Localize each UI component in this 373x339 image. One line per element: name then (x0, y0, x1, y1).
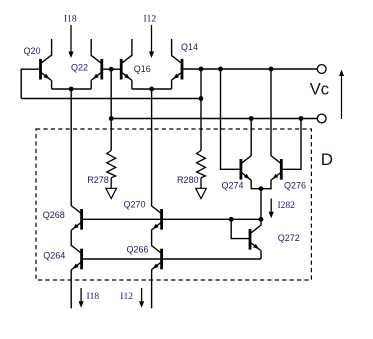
svg-text:Q274: Q274 (222, 180, 244, 190)
wire Q272 collector up to node (260, 219, 262, 226)
label I282 (278, 201, 296, 211)
svg-text:Q14: Q14 (181, 42, 198, 52)
wire base rail y259 (Q264,Q266 bases to Q272 emitter) (82, 258, 261, 260)
svg-text:Q16: Q16 (134, 64, 151, 74)
label R280 (177, 175, 199, 185)
terminal circle Vc top (317, 65, 326, 74)
wire common emitters down to rail (260, 189, 262, 220)
wire common-base vertical x111 (110, 69, 112, 118)
transistor Q276 (271, 156, 282, 181)
current arrow I282 (269, 199, 274, 219)
transistor Q272 (250, 226, 261, 251)
junction dot rail B x251 (249, 116, 254, 121)
current source label I18 (top) (64, 14, 77, 24)
svg-text:Q20: Q20 (24, 46, 41, 56)
label Q268 (43, 210, 65, 220)
resistor R280 (196, 151, 207, 199)
wire Q14 collector stub (171, 39, 173, 56)
svg-text:Q272: Q272 (278, 233, 300, 243)
current source label I12 (top) (144, 14, 157, 24)
label Q270 (124, 199, 146, 209)
junction dot right emitter rail (149, 87, 154, 92)
transistor Q14 (172, 55, 183, 80)
transistor Q274 (241, 156, 252, 181)
wire Q16 base to common node (111, 68, 121, 70)
svg-text:I282: I282 (278, 201, 296, 211)
label R278 (87, 175, 109, 185)
node Q20/Q22 emitter rail (52, 88, 92, 90)
dashed boundary box D (36, 129, 311, 280)
current arrow I12 (bottom) (139, 288, 144, 308)
label I12 (bottom) (120, 292, 133, 302)
junction dot Q274/Q276 emitters (259, 186, 264, 191)
svg-text:Q264: Q264 (43, 251, 65, 261)
junction dot rail A x220 (218, 67, 223, 72)
label Q276 (284, 180, 306, 190)
label I18 (bottom) (87, 292, 100, 302)
svg-text:Q266: Q266 (127, 244, 149, 254)
transistor Q16 (121, 55, 132, 80)
wire Q22 collector stub (90, 39, 92, 56)
label Q14 (181, 42, 198, 52)
svg-text:I18: I18 (87, 292, 100, 302)
wire Q272 emitter down to rail (260, 250, 262, 259)
svg-text:Q276: Q276 (284, 180, 306, 190)
svg-text:D: D (321, 150, 333, 169)
svg-text:I18: I18 (64, 14, 77, 24)
wire vertical x271 (rail A down to Q276 collector) (270, 69, 272, 156)
label D (321, 150, 333, 169)
junction dot left emitter rail (69, 87, 74, 92)
node Q16/Q14 emitter rail (132, 88, 172, 90)
label Q272 (278, 233, 300, 243)
wire Q270 emitter down to Q266 (151, 230, 153, 246)
wire Q20 emitter down (51, 80, 53, 89)
wire Q16 collector stub (131, 39, 133, 56)
svg-text:R278: R278 (87, 175, 109, 185)
wire Q14 emitter down (171, 80, 173, 89)
junction dot rail A x271 (269, 67, 274, 72)
label Q22 (71, 63, 88, 73)
wire vertical x151 (emitters down to Q270) (151, 89, 153, 206)
terminal circle Vc bottom (317, 114, 326, 123)
wire Q22 emitter down (90, 80, 92, 89)
arrow Vc direction (up) (339, 70, 344, 120)
current arrow I18 (bottom) (79, 288, 84, 308)
transistor Q264 (71, 245, 82, 270)
transistor Q270 (151, 206, 162, 231)
transistor Q268 (71, 206, 82, 231)
wire Q20 base to left rail (21, 69, 40, 98)
junction dot rail y98.5 at x201 (199, 96, 204, 101)
svg-text:I12: I12 (120, 292, 133, 302)
label Q20 (24, 46, 41, 56)
wire vertical x251 (rail B down to Q274 collector) (250, 119, 252, 156)
wire Q22 base to common node (102, 68, 111, 70)
svg-text:Q22: Q22 (71, 63, 88, 73)
wire rail A (Q14 base to Vc top terminal) (183, 68, 317, 70)
wire Q276 emitter to common node (261, 180, 271, 188)
junction dot Q22/Q16 bases (109, 67, 114, 72)
svg-text:Q268: Q268 (43, 210, 65, 220)
wire Q264 emitter output down (70, 270, 72, 308)
wire vertical x201 (rail A down to R280) (200, 69, 202, 151)
svg-text:Q270: Q270 (124, 199, 146, 209)
current arrow I18 (top) (68, 25, 73, 58)
junction dot rail y219 x261 (259, 217, 264, 222)
wire vertical x301 (rail B down to Q276 base) (282, 119, 301, 170)
wire Q20 collector stub (51, 39, 53, 56)
wire rail B (bases rail to Vc bottom terminal) (111, 118, 317, 120)
svg-text:I12: I12 (144, 14, 157, 24)
wire Q274 emitter to common node (251, 180, 261, 188)
label Q16 (134, 64, 151, 74)
resistor R278 (106, 119, 117, 199)
junction dot rail A x201 (199, 67, 204, 72)
junction dot rail y219 x231 (229, 217, 234, 222)
label Q264 (43, 251, 65, 261)
wire left rail y98.5 (21, 98, 201, 100)
wire Q272 base takeoff (231, 219, 249, 238)
transistor Q20 (41, 55, 52, 80)
wire Q268 emitter down to Q264 (70, 230, 72, 246)
label Q266 (127, 244, 149, 254)
wire vertical x220 (rail A down to Q274 base) (221, 69, 241, 169)
current arrow I12 (top) (149, 25, 154, 58)
junction dot rail B x301 (299, 116, 304, 121)
wire vertical x71 (emitters down to Q268) (70, 89, 72, 206)
transistor Q266 (151, 245, 162, 270)
label Q274 (222, 180, 244, 190)
wire Q266 emitter output down (151, 270, 153, 308)
svg-text:R280: R280 (177, 175, 199, 185)
transistor Q22 (91, 55, 102, 80)
wire base rail y219 (Q268,Q270 bases to node) (82, 218, 261, 220)
svg-text:Vc: Vc (310, 81, 329, 99)
wire Q16 emitter down (131, 80, 133, 89)
junction dot rail B x111 (109, 116, 114, 121)
label Vc (310, 81, 329, 99)
